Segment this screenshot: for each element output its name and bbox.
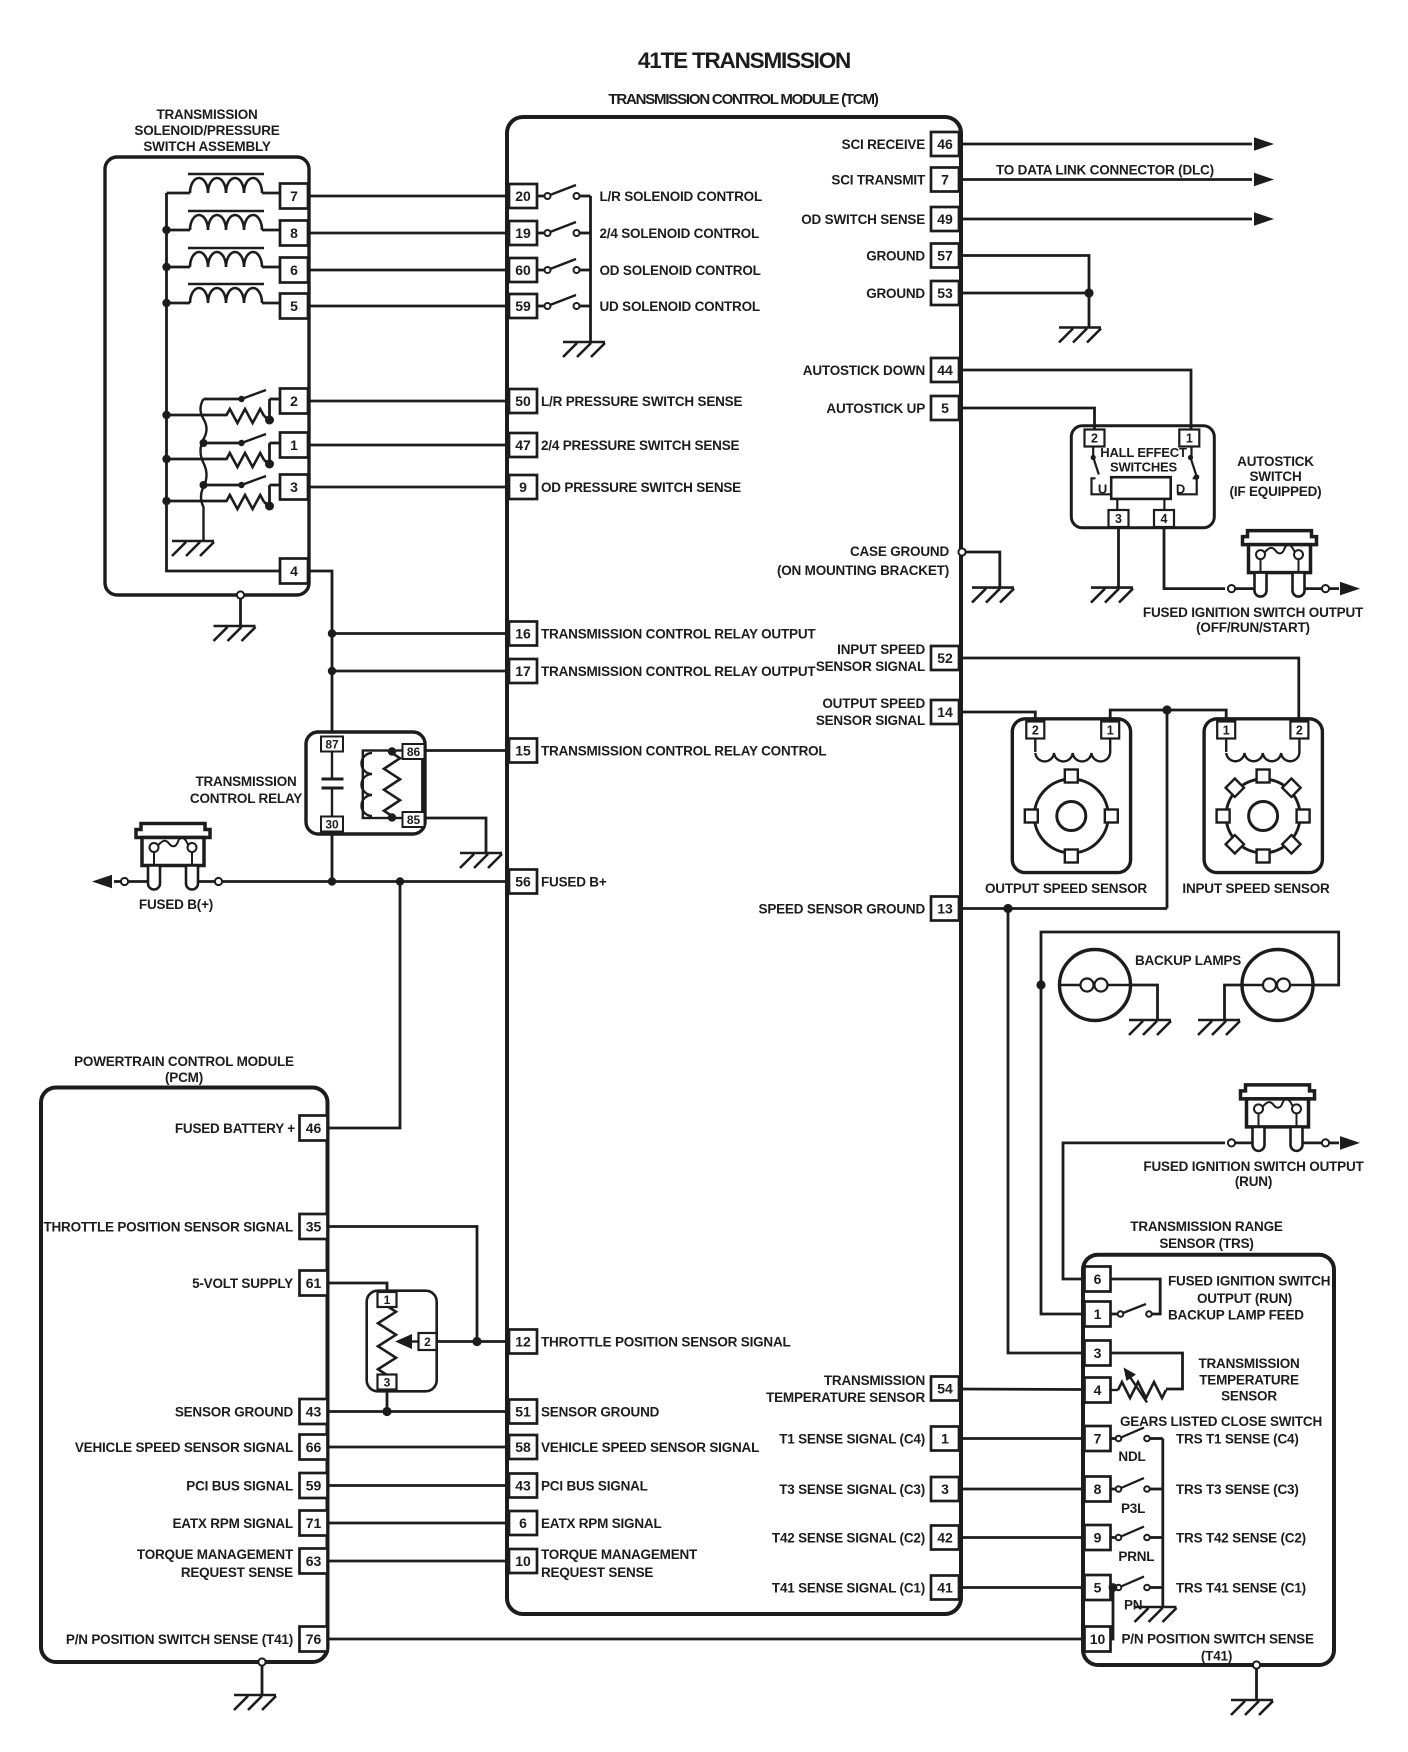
svg-text:10: 10: [1090, 1631, 1106, 1647]
svg-text:7: 7: [941, 172, 949, 188]
wire relay 85 to ground: [425, 818, 487, 853]
svg-text:VEHICLE SPEED SENSOR SIGNAL: VEHICLE SPEED SENSOR SIGNAL: [75, 1440, 293, 1455]
junction tap 16: [328, 629, 336, 637]
pin 1 (autostick): [1179, 430, 1199, 447]
svg-text:5-VOLT SUPPLY: 5-VOLT SUPPLY: [192, 1276, 293, 1291]
wire PCM 63 to TCM 10: [328, 1560, 510, 1563]
pin 4 (assembly): [280, 559, 308, 584]
solenoid coil L5: [167, 284, 281, 303]
wire assembly 8 to TCM 19: [308, 232, 509, 235]
svg-text:TRS T42 SENSE (C2): TRS T42 SENSE (C2): [1176, 1531, 1306, 1546]
svg-text:9: 9: [1094, 1530, 1102, 1546]
wire fuse1 span: [1235, 587, 1322, 590]
svg-text:2: 2: [1032, 724, 1039, 738]
pin 2 (output sensor): [1026, 722, 1044, 739]
label U: [1098, 482, 1107, 497]
wire assembly 7 to TCM 20: [308, 195, 509, 198]
pin 51 (TCM): [509, 1400, 537, 1424]
TRS box B3: [1083, 1255, 1334, 1665]
label transmission control relay: [190, 774, 302, 806]
svg-text:INPUT SPEED SENSOR: INPUT SPEED SENSOR: [1182, 881, 1330, 896]
pressure switch SW2: [204, 390, 281, 425]
wire pressure switch common: [201, 399, 207, 541]
svg-text:TRS T1 SENSE (C4): TRS T1 SENSE (C4): [1176, 1432, 1299, 1447]
svg-text:5: 5: [290, 298, 298, 314]
arrow SCI receive: [1254, 137, 1274, 151]
wire SCI receive to DLC: [959, 143, 1252, 146]
svg-text:54: 54: [937, 1381, 953, 1397]
svg-text:51: 51: [515, 1404, 531, 1420]
pin 43 (PCM): [300, 1399, 328, 1424]
junction resistor bus: [162, 455, 170, 463]
connector ring B+ b: [215, 878, 222, 885]
wire TCM 57 ground: [959, 256, 1089, 328]
wire assembly 3 to TCM 9: [308, 486, 509, 489]
label SCI receive: [842, 137, 926, 152]
junction switch common A: [200, 439, 208, 447]
pin 59 (TCM): [509, 294, 537, 318]
svg-text:5: 5: [941, 400, 949, 416]
connector ring ign b: [1322, 585, 1329, 592]
relay node 86: [388, 747, 396, 755]
pin 2 (TPS): [419, 1333, 437, 1350]
pin 87 (relay): [321, 737, 343, 752]
TRS ground stub: [1253, 1661, 1260, 1700]
svg-text:TRANSMISSION RANGE: TRANSMISSION RANGE: [1130, 1219, 1283, 1234]
pin 1 (TPS): [378, 1292, 397, 1307]
pin 1 (input sensor): [1217, 722, 1235, 739]
svg-text:SWITCH: SWITCH: [1249, 469, 1301, 484]
svg-text:3: 3: [941, 1481, 949, 1497]
junction resistor bus: [162, 497, 170, 505]
svg-text:8: 8: [1094, 1481, 1102, 1497]
label P3L: [1121, 1501, 1145, 1516]
pin 10 (TRS): [1085, 1627, 1111, 1652]
svg-text:56: 56: [515, 874, 531, 890]
svg-text:2/4 PRESSURE SWITCH SENSE: 2/4 PRESSURE SWITCH SENSE: [541, 438, 739, 453]
svg-text:TRANSMISSION: TRANSMISSION: [156, 107, 257, 122]
svg-text:PCI BUS SIGNAL: PCI BUS SIGNAL: [541, 1479, 648, 1494]
output speed sensor B1: [1012, 719, 1130, 873]
wire solenoid common bus: [167, 193, 281, 571]
svg-text:1: 1: [1223, 724, 1230, 738]
pin 30 (relay): [321, 817, 343, 832]
pin 76 (PCM): [300, 1627, 328, 1652]
ground PCM: [234, 1695, 276, 1710]
svg-text:T1 SENSE SIGNAL (C4): T1 SENSE SIGNAL (C4): [779, 1432, 925, 1447]
svg-text:PRNL: PRNL: [1118, 1549, 1154, 1564]
label to data link connector: [996, 163, 1214, 178]
TRS switch PN: [1111, 1577, 1163, 1591]
fuse F1 fused B(+): [136, 824, 210, 890]
ground pressure switches: [172, 541, 214, 556]
junction TPS3 sensor ground: [382, 1407, 391, 1416]
wire PCM 66 to TCM 58: [328, 1446, 510, 1449]
svg-text:(RUN): (RUN): [1235, 1174, 1272, 1189]
svg-text:47: 47: [515, 437, 531, 453]
label EATX 71: [172, 1516, 293, 1531]
pin 7 (TRS): [1085, 1426, 1111, 1451]
svg-text:43: 43: [515, 1478, 531, 1494]
label 2/4 PRESSURE SWITCH SENSE: [541, 438, 739, 453]
pin 59 (PCM): [300, 1473, 328, 1498]
pin 2 (autostick): [1085, 430, 1105, 447]
svg-text:3: 3: [1115, 512, 1122, 526]
wire TCM 41 to TRS 5: [959, 1586, 1085, 1589]
pin 17 (TCM): [509, 659, 537, 683]
label transmission temperature sensor 54: [766, 1373, 925, 1405]
pin 5 (assembly): [280, 294, 308, 319]
svg-text:4: 4: [290, 563, 298, 579]
pin 9 (TRS): [1085, 1525, 1111, 1550]
svg-text:5: 5: [1094, 1580, 1102, 1596]
pin 3 (assembly): [280, 475, 308, 500]
svg-text:BACKUP LAMP FEED: BACKUP LAMP FEED: [1168, 1308, 1304, 1323]
svg-text:OD PRESSURE SWITCH SENSE: OD PRESSURE SWITCH SENSE: [541, 480, 741, 495]
svg-text:6: 6: [519, 1515, 527, 1531]
wire TCM 1 to TRS 7: [959, 1437, 1085, 1440]
svg-text:20: 20: [515, 188, 531, 204]
TRS switch NDL: [1111, 1428, 1163, 1442]
svg-text:6: 6: [1094, 1271, 1102, 1287]
svg-text:2/4 SOLENOID CONTROL: 2/4 SOLENOID CONTROL: [600, 226, 760, 241]
wire TCM 3 to TRS 8: [959, 1488, 1085, 1491]
svg-text:1: 1: [384, 1293, 391, 1307]
label relay control 15: [541, 744, 826, 759]
svg-text:1: 1: [941, 1431, 949, 1447]
svg-text:POWERTRAIN CONTROL MODULE: POWERTRAIN CONTROL MODULE: [74, 1054, 294, 1069]
svg-text:UD SOLENOID CONTROL: UD SOLENOID CONTROL: [600, 299, 760, 314]
pin 49 (TCM right): [931, 207, 959, 231]
pin 7 (assembly): [280, 184, 308, 209]
pin 60 (TCM): [509, 258, 537, 282]
label fused battery 46: [175, 1121, 295, 1136]
svg-text:FUSED BATTERY +: FUSED BATTERY +: [175, 1121, 295, 1136]
svg-text:(IF EQUIPPED): (IF EQUIPPED): [1230, 484, 1322, 499]
label 2/4 SOLENOID CONTROL: [600, 226, 760, 241]
svg-text:OUTPUT SPEED SENSOR: OUTPUT SPEED SENSOR: [985, 881, 1147, 896]
svg-text:D: D: [1176, 482, 1185, 497]
label input speed sensor: [1182, 881, 1330, 896]
svg-text:TORQUE MANAGEMENT: TORQUE MANAGEMENT: [137, 1547, 294, 1562]
svg-text:3: 3: [1094, 1345, 1102, 1361]
pin 19 (TCM): [509, 221, 537, 245]
wire TCM 13 ground line: [959, 907, 1167, 910]
svg-text:L/R SOLENOID CONTROL: L/R SOLENOID CONTROL: [600, 189, 763, 204]
pin 41 (TCM right): [931, 1576, 959, 1600]
label fused ignition switch output 1: [1143, 605, 1364, 635]
wire fused B+ line: [114, 880, 509, 883]
label P/N position 76: [66, 1632, 293, 1647]
svg-text:42: 42: [937, 1530, 953, 1546]
svg-text:2: 2: [1091, 432, 1098, 446]
TRS switch PRNL: [1111, 1527, 1163, 1541]
label 5-volt supply 61: [192, 1276, 293, 1291]
svg-text:SENSOR GROUND: SENSOR GROUND: [175, 1405, 294, 1420]
svg-text:GROUND: GROUND: [866, 249, 925, 264]
svg-text:FUSED B+: FUSED B+: [541, 875, 607, 890]
pin 47 (TCM): [509, 433, 537, 457]
label P/N position switch sense: [1122, 1632, 1314, 1664]
svg-text:52: 52: [937, 650, 953, 666]
wire solenoid switch rail: [589, 196, 592, 342]
svg-text:1: 1: [1107, 724, 1114, 738]
fuse F3 ignition run: [1241, 1085, 1315, 1151]
label TPS signal 12: [541, 1335, 791, 1350]
relay inner box: [363, 751, 423, 819]
wire SCI transmit to DLC: [959, 178, 1252, 181]
svg-text:4: 4: [1161, 512, 1168, 526]
svg-text:59: 59: [515, 298, 531, 314]
autostick box: [1071, 426, 1214, 528]
pin 8 (assembly): [280, 221, 308, 246]
connector ring B+ a: [121, 878, 128, 885]
pin 4 (autostick): [1154, 510, 1174, 527]
svg-text:8: 8: [290, 225, 298, 241]
pin 6 (assembly): [280, 258, 308, 283]
pin 1 (TCM right): [931, 1427, 959, 1451]
TPS box: [367, 1291, 437, 1392]
junction 35/2/12: [472, 1337, 481, 1346]
wire autostick 3 to ground: [1117, 527, 1120, 588]
pin 71 (PCM): [300, 1511, 328, 1536]
label PCI 43: [541, 1479, 648, 1494]
pin 56 (TCM): [509, 870, 537, 894]
svg-text:1: 1: [1094, 1306, 1102, 1322]
wire PCM 61 to TPS 1: [328, 1283, 388, 1293]
svg-text:TRS T3 SENSE (C3): TRS T3 SENSE (C3): [1176, 1482, 1299, 1497]
svg-text:2: 2: [1296, 724, 1303, 738]
svg-text:49: 49: [937, 211, 953, 227]
svg-text:43: 43: [306, 1404, 322, 1420]
pressure switch SW1: [204, 434, 281, 469]
pin 44 (TCM right): [931, 358, 959, 382]
solenoid coil L8: [167, 211, 281, 230]
solenoid coil L6: [167, 248, 281, 267]
svg-text:12: 12: [515, 1334, 531, 1350]
svg-text:SPEED SENSOR GROUND: SPEED SENSOR GROUND: [759, 902, 926, 917]
svg-text:P3L: P3L: [1121, 1501, 1145, 1516]
svg-text:T42 SENSE SIGNAL (C2): T42 SENSE SIGNAL (C2): [772, 1531, 925, 1546]
pin 1 (output sensor): [1101, 722, 1119, 739]
label output speed sensor: [985, 881, 1147, 896]
label relay output 16: [541, 627, 816, 642]
svg-text:AUTOSTICK UP: AUTOSTICK UP: [826, 401, 925, 416]
svg-text:53: 53: [937, 285, 953, 301]
wire output 1 to input 1: [1110, 710, 1226, 722]
relay coil: [362, 753, 372, 816]
ground TCM 57/53: [1059, 328, 1101, 343]
svg-text:FUSED IGNITION SWITCH: FUSED IGNITION SWITCH: [1168, 1274, 1330, 1289]
arrow fused ignition 1: [1340, 582, 1360, 596]
svg-text:EATX RPM SIGNAL: EATX RPM SIGNAL: [172, 1516, 293, 1531]
label T1 sense: [779, 1432, 925, 1447]
relay capacitor: [322, 750, 344, 817]
ground autostick: [1091, 588, 1133, 603]
wire PCM 43 to TCM 51: [328, 1410, 510, 1413]
wire left lamp to ground: [1131, 985, 1158, 1020]
solenoid coil L7: [167, 174, 281, 193]
svg-text:INPUT SPEED: INPUT SPEED: [837, 642, 925, 657]
svg-text:SCI TRANSMIT: SCI TRANSMIT: [831, 173, 926, 188]
pin 57 (TCM right): [931, 244, 959, 268]
svg-text:35: 35: [306, 1219, 322, 1235]
svg-text:TEMPERATURE SENSOR: TEMPERATURE SENSOR: [766, 1390, 925, 1405]
svg-text:CASE GROUND: CASE GROUND: [850, 544, 950, 559]
svg-text:87: 87: [325, 737, 339, 751]
svg-text:9: 9: [519, 479, 527, 495]
svg-text:AUTOSTICK: AUTOSTICK: [1237, 454, 1314, 469]
wire sensor ground down: [1166, 710, 1169, 909]
junction 13 to TRS: [1003, 904, 1012, 913]
svg-text:6: 6: [290, 262, 298, 278]
svg-text:TO DATA LINK CONNECTOR (DLC): TO DATA LINK CONNECTOR (DLC): [996, 163, 1214, 178]
arrow OD switch sense: [1254, 212, 1274, 226]
label autostick switch: [1230, 454, 1322, 499]
svg-text:46: 46: [937, 136, 953, 152]
svg-text:60: 60: [515, 262, 531, 278]
svg-text:2: 2: [424, 1335, 431, 1349]
pin 7 (TCM right): [931, 168, 959, 192]
arrow fused B(+) left: [92, 875, 112, 889]
svg-text:P/N POSITION SWITCH SENSE (T41: P/N POSITION SWITCH SENSE (T41): [66, 1632, 293, 1647]
svg-text:TORQUE MANAGEMENT: TORQUE MANAGEMENT: [541, 1547, 698, 1562]
label speed sensor ground: [759, 902, 926, 917]
svg-text:19: 19: [515, 225, 531, 241]
backup lamp switch: [1111, 1304, 1152, 1317]
pressure switch resistor R2: [167, 409, 270, 423]
svg-text:VEHICLE SPEED SENSOR SIGNAL: VEHICLE SPEED SENSOR SIGNAL: [541, 1440, 759, 1455]
junction coil bus: [162, 226, 170, 234]
svg-text:OUTPUT SPEED: OUTPUT SPEED: [822, 696, 925, 711]
svg-text:HALL EFFECT: HALL EFFECT: [1100, 445, 1187, 460]
label relay output 17: [541, 664, 816, 679]
relay resistor: [384, 753, 400, 816]
wire TRS 5 to 10: [1111, 1588, 1114, 1640]
pin 6 (TCM): [509, 1511, 537, 1535]
hall switch U blade: [1091, 447, 1111, 495]
pin 54 (TCM right): [931, 1377, 959, 1401]
svg-text:PCI BUS SIGNAL: PCI BUS SIGNAL: [186, 1479, 293, 1494]
wire TCM 42 to TRS 9: [959, 1536, 1085, 1539]
svg-text:THROTTLE POSITION SENSOR SIGNA: THROTTLE POSITION SENSOR SIGNAL: [541, 1335, 791, 1350]
svg-text:THROTTLE POSITION SENSOR SIGNA: THROTTLE POSITION SENSOR SIGNAL: [43, 1220, 293, 1235]
junction lamp feed: [1036, 980, 1045, 989]
junction coil bus: [162, 263, 170, 271]
label NDL: [1118, 1449, 1145, 1464]
label VSS 58: [541, 1440, 759, 1455]
svg-text:41: 41: [937, 1580, 953, 1596]
wire to ign arrow: [1329, 587, 1339, 590]
label TRS T41: [1176, 1581, 1306, 1596]
label torque mgmt 10: [541, 1547, 698, 1580]
junction speed sensor ground top: [1162, 705, 1171, 714]
pin 2 (assembly): [280, 389, 308, 414]
ground left lamp: [1129, 1020, 1171, 1035]
wire TPS 3 to ground line: [386, 1389, 389, 1411]
wire TCM 44 to autostick 1: [959, 370, 1191, 430]
solenoid control switch 20: [537, 185, 591, 199]
svg-text:16: 16: [515, 626, 531, 642]
ground right lamp: [1198, 1020, 1240, 1035]
wire TRS 6 internal: [1111, 1279, 1161, 1314]
PCM ground stub: [258, 1658, 265, 1695]
pin 14 (TCM right): [931, 700, 959, 724]
autostick inner box: [1111, 477, 1171, 499]
connector ring run b: [1322, 1139, 1329, 1146]
TPS wiper arrow: [395, 1334, 419, 1349]
svg-text:P/N POSITION SWITCH SENSE: P/N POSITION SWITCH SENSE: [1122, 1632, 1314, 1647]
label PCI 59: [186, 1479, 293, 1494]
svg-text:66: 66: [306, 1439, 322, 1455]
wire TPS 2 to TCM 12: [437, 1340, 510, 1343]
wire TCM 14 to output sensor 2: [959, 712, 1035, 722]
svg-text:15: 15: [515, 743, 531, 759]
wire TCM 5 to autostick 2: [959, 408, 1095, 430]
svg-text:1: 1: [290, 437, 298, 453]
label TPS signal 35: [43, 1220, 293, 1235]
svg-text:OD SWITCH SENSE: OD SWITCH SENSE: [801, 212, 925, 227]
svg-text:EATX RPM SIGNAL: EATX RPM SIGNAL: [541, 1516, 662, 1531]
svg-text:30: 30: [325, 817, 339, 831]
svg-text:SENSOR SIGNAL: SENSOR SIGNAL: [816, 659, 925, 674]
wire TRS 6 to fuse run: [1063, 1143, 1225, 1279]
label TRS T1: [1176, 1432, 1299, 1447]
label fused B+ 56: [541, 875, 607, 890]
svg-text:41TE TRANSMISSION: 41TE TRANSMISSION: [638, 48, 850, 73]
solenoid control switch 60: [537, 259, 591, 273]
label VSS 66: [75, 1440, 293, 1455]
pin 66 (PCM): [300, 1435, 328, 1460]
pin 12 (TCM): [509, 1330, 537, 1354]
TCM module box U2: [507, 117, 961, 1614]
svg-text:1: 1: [1186, 432, 1193, 446]
svg-text:50: 50: [515, 393, 531, 409]
TRS switch P3L: [1111, 1478, 1163, 1492]
svg-text:CONTROL RELAY: CONTROL RELAY: [190, 791, 302, 806]
backup lamp left E1: [1060, 950, 1131, 1021]
relay box K1: [306, 732, 425, 834]
label OD SOLENOID CONTROL: [600, 263, 761, 278]
junction relay 30 at B+: [328, 877, 336, 885]
pin 85 (relay): [403, 812, 425, 827]
wire assembly 1 to TCM 47: [308, 444, 509, 447]
connector ring run a: [1228, 1139, 1235, 1146]
wire tap to TCM 16: [332, 632, 509, 635]
ground assembly case: [214, 626, 256, 641]
svg-text:SWITCHES: SWITCHES: [1110, 460, 1178, 475]
backup lamp right E2: [1242, 950, 1313, 1021]
temperature sensor arrow: [1124, 1368, 1148, 1403]
svg-text:(PCM): (PCM): [165, 1070, 203, 1085]
label L/R SOLENOID CONTROL: [600, 189, 763, 204]
pin 1 (assembly): [280, 433, 308, 458]
junction PCM feed at B+: [396, 877, 404, 885]
PCM box U3: [41, 1088, 328, 1663]
wire assembly 6 to TCM 60: [308, 269, 509, 272]
solenoid control switch 59: [537, 295, 591, 309]
wire PCM 59 to TCM 43: [328, 1484, 510, 1487]
label output speed sensor signal: [816, 696, 926, 728]
pin 8 (TRS): [1085, 1477, 1111, 1502]
svg-text:SOLENOID/PRESSURE: SOLENOID/PRESSURE: [134, 123, 279, 138]
svg-text:76: 76: [306, 1631, 322, 1647]
wire PCM 76 to TRS 10: [328, 1638, 1085, 1641]
junction tap 17: [328, 667, 336, 675]
pin 10 (TCM): [509, 1549, 537, 1573]
pressure switch resistor R1: [167, 453, 270, 467]
pin 20 (TCM): [509, 184, 537, 208]
